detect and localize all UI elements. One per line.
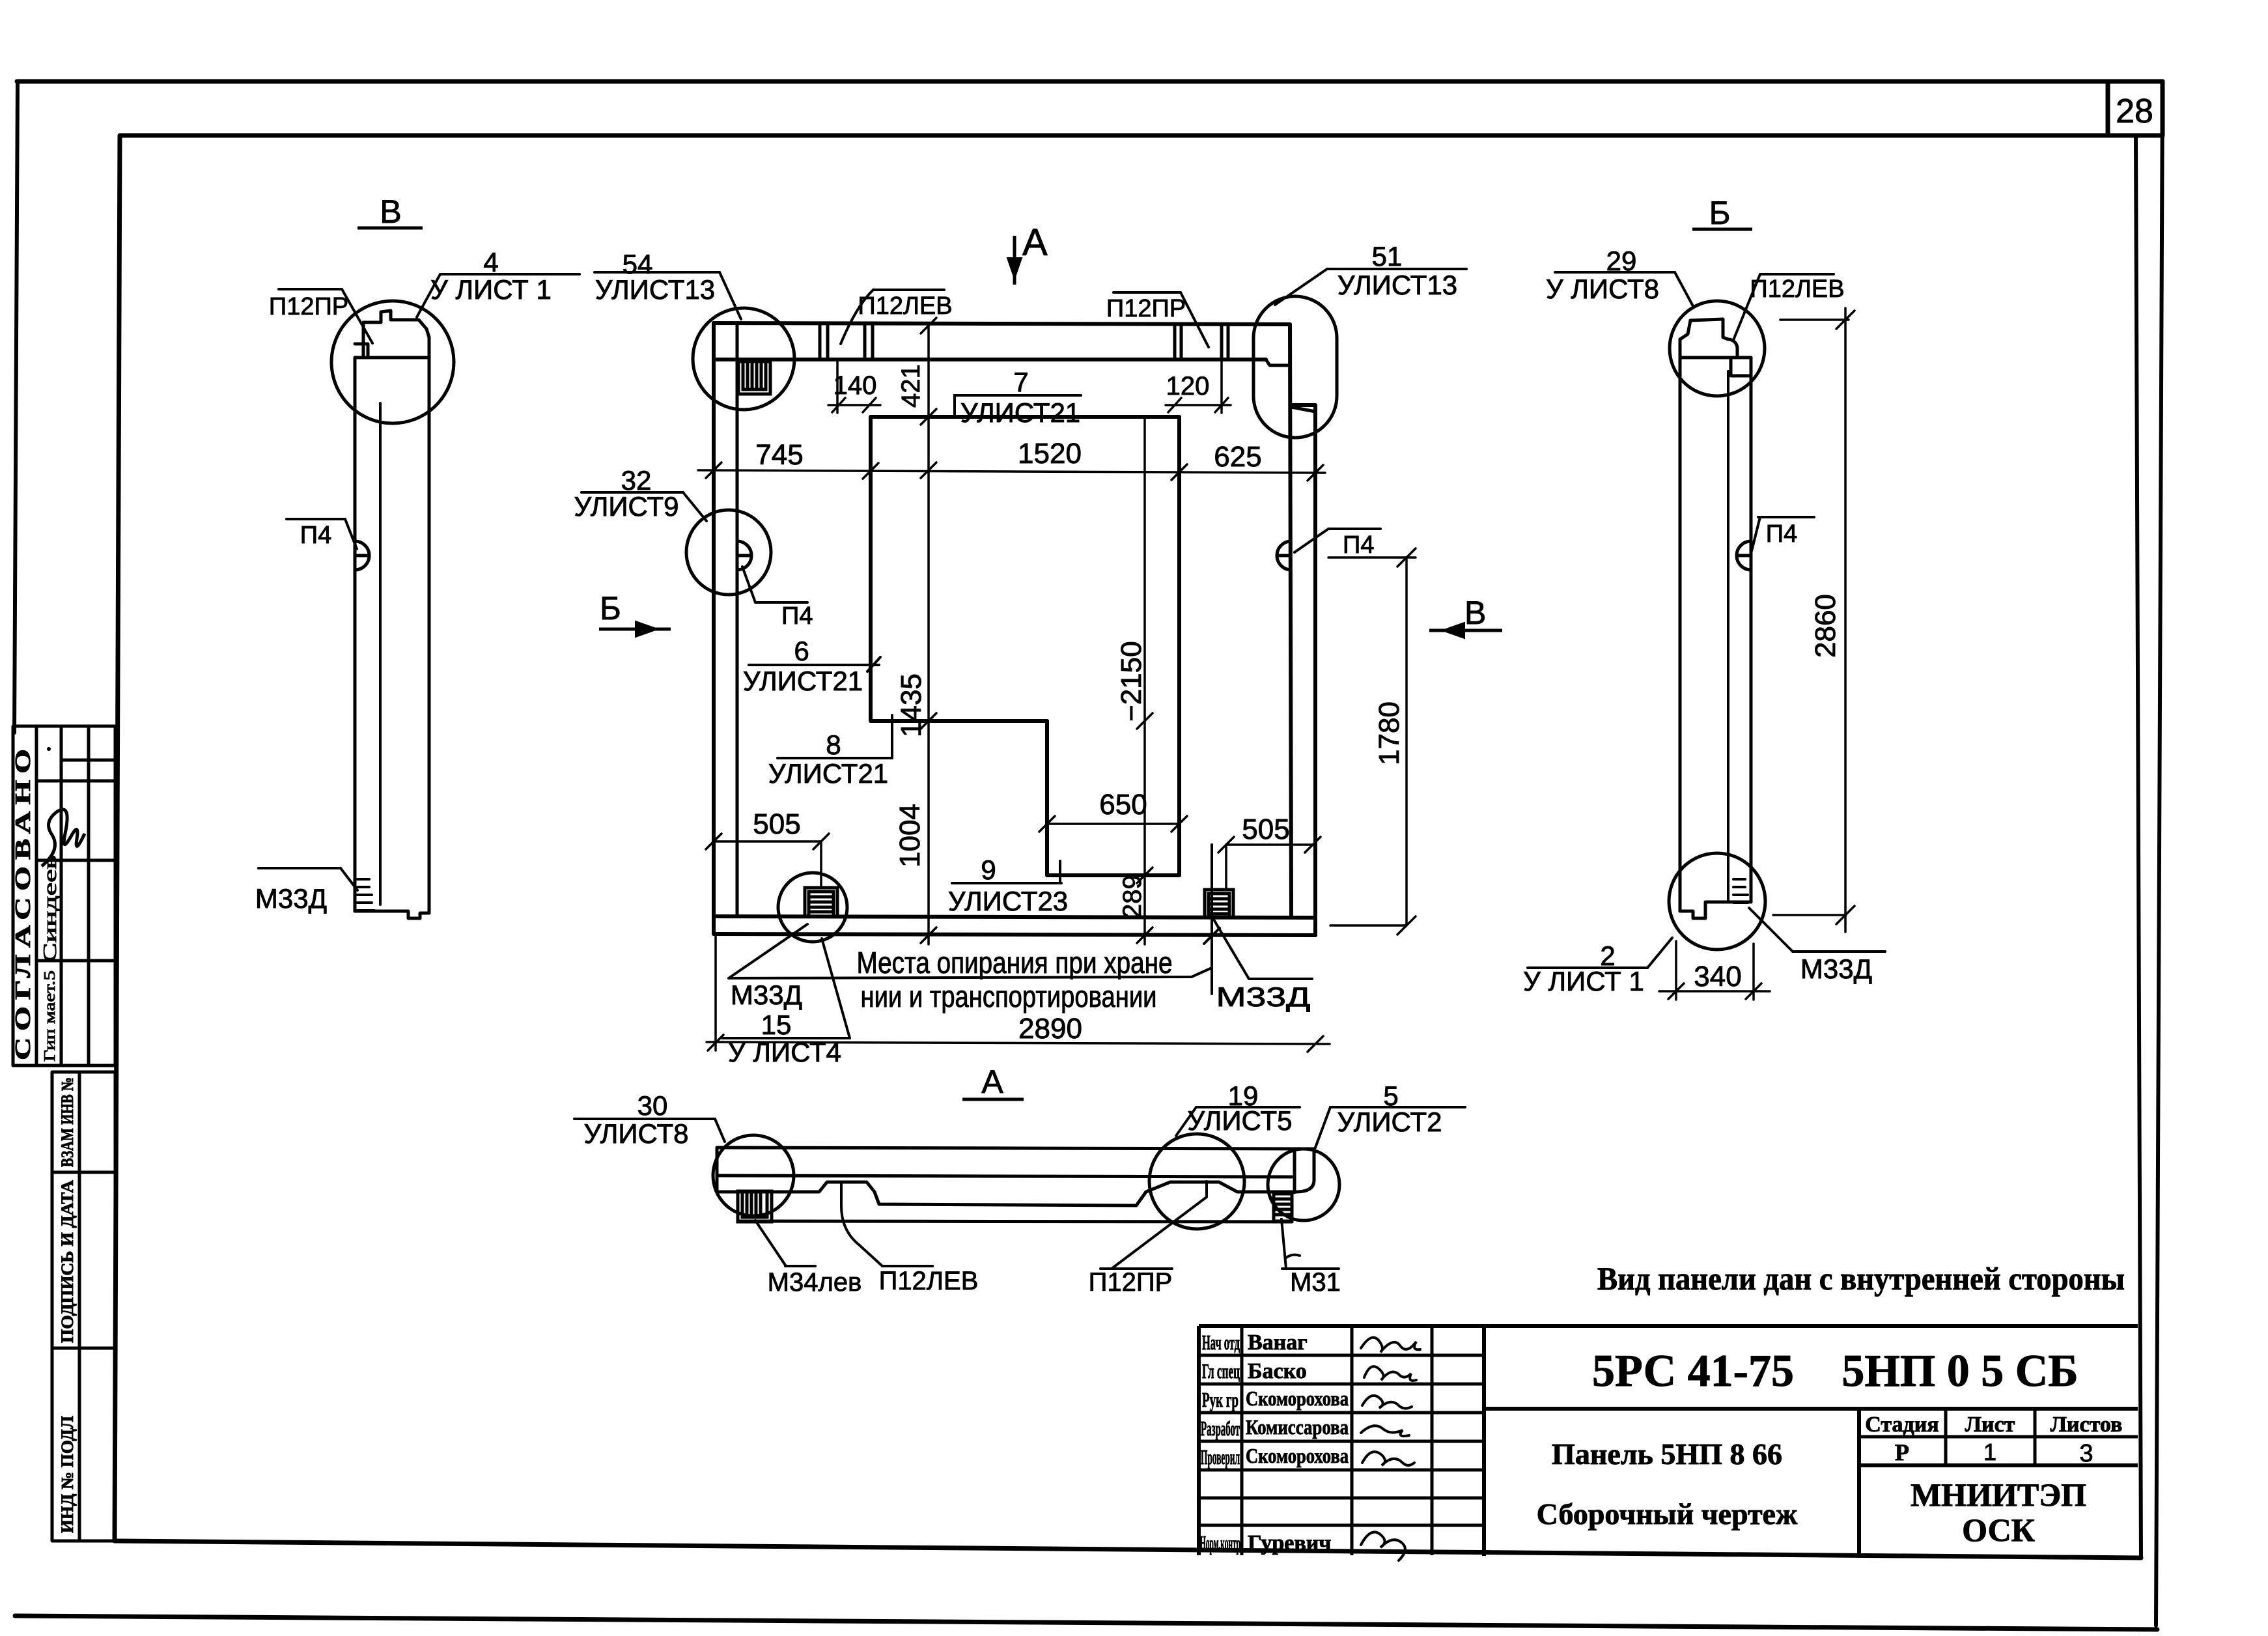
panel bottom band lower line (714, 934, 1315, 935)
svg-text:П12ЛЕВ: П12ЛЕВ (879, 1267, 979, 1295)
mini table lines (1859, 1435, 2138, 1439)
svg-text:М31: М31 (1290, 1268, 1341, 1297)
dim 2860 (1844, 308, 1847, 932)
П12ПР marks on top band (1173, 324, 1177, 360)
А view top line (717, 1148, 1314, 1149)
label 54 УЛИСТ13 leader (595, 271, 720, 274)
label П12ПР (В) leader (279, 288, 342, 290)
А view bottom line (738, 1221, 1292, 1222)
inner frame right (2136, 135, 2141, 1558)
label П4 right leader (1328, 528, 1380, 530)
panel right edge (1290, 324, 1291, 916)
М33Д support square right (main view bottom) (1205, 890, 1233, 918)
svg-text:745: 745 (755, 439, 803, 471)
detail circle 30 (713, 1135, 794, 1216)
label П12ПР (А) leader (1100, 1267, 1172, 1270)
Б view П4 notch (1737, 541, 1751, 570)
vertical dim line 2150/289 (1143, 417, 1146, 944)
svg-text:М33Д: М33Д (1216, 981, 1311, 1012)
label 15 УЛИСТ4 leader (722, 1037, 850, 1039)
label М31 leader (1282, 1267, 1339, 1270)
outer frame left (partial) (14, 81, 18, 733)
detail circle 15 (778, 873, 847, 942)
svg-text:УЛИСТ13: УЛИСТ13 (595, 274, 715, 305)
signature table row labels (1200, 1331, 1240, 1555)
section mark A top (1007, 236, 1022, 285)
left stamp lower block divider vertical (78, 1072, 81, 1541)
А view right block (1293, 1149, 1296, 1192)
svg-text:Б: Б (1709, 195, 1731, 231)
detail circle 19 (1149, 1134, 1244, 1229)
svg-text:Ванаг: Ванаг (1248, 1331, 1308, 1355)
svg-text:140: 140 (833, 371, 877, 400)
П4 notch right (main view) (1277, 541, 1291, 570)
label М33Д (В) leader (259, 867, 341, 869)
section mark В right (1429, 623, 1502, 638)
svg-text:Синдеев: Синдеев (40, 855, 61, 963)
В view body (354, 358, 357, 911)
signature squiggles (1361, 1338, 1420, 1560)
svg-text:У ЛИСТ 1: У ЛИСТ 1 (430, 274, 552, 305)
svg-text:505: 505 (1242, 813, 1289, 845)
svg-text:М33Д: М33Д (255, 883, 327, 914)
svg-text:Комиссарова: Комиссарова (1246, 1415, 1349, 1439)
svg-text:Б: Б (600, 590, 621, 627)
svg-text:нии и транспортировании: нии и транспортировании (861, 980, 1157, 1013)
В view П4 notch (355, 541, 369, 570)
svg-text:Гип мает.5: Гип мает.5 (42, 970, 59, 1062)
svg-text:5НП 0 5 СБ: 5НП 0 5 СБ (1841, 1346, 2078, 1396)
label М33Д right leader (1249, 978, 1312, 980)
note extension vertical (1211, 845, 1213, 994)
svg-text:Стадия: Стадия (1865, 1413, 1939, 1437)
detail circle 54 (693, 308, 794, 410)
svg-text:Разработ: Разработ (1201, 1417, 1240, 1440)
Б view body (1679, 339, 1682, 911)
svg-text:8: 8 (826, 729, 841, 760)
svg-text:120: 120 (1166, 372, 1210, 401)
title area divider vertical (1857, 1409, 1861, 1557)
svg-text:3: 3 (2079, 1440, 2093, 1467)
svg-text:4: 4 (483, 247, 498, 277)
label 29 У ЛИСТ8 leader (1555, 271, 1675, 274)
panel bottom edge (714, 916, 1315, 918)
outer frame bottom (15, 1616, 2157, 1629)
svg-text:УЛИСТ2: УЛИСТ2 (1337, 1107, 1442, 1137)
label 8 УЛИСТ21 leader (777, 757, 892, 759)
label 19 УЛИСТ5 leader (1196, 1106, 1300, 1108)
svg-text:М33Д: М33Д (1800, 953, 1872, 984)
А view second line (717, 1176, 1292, 1177)
В view top cap profile (363, 311, 429, 358)
dim 1780 (1405, 557, 1408, 925)
svg-text:УЛИСТ8: УЛИСТ8 (584, 1118, 689, 1149)
label 7 УЛИСТ21 bracket (955, 395, 1081, 417)
label М33Д left leader (729, 924, 807, 978)
label 6 УЛИСТ21 leader (749, 664, 879, 666)
svg-text:15: 15 (761, 1009, 792, 1040)
svg-text:П4: П4 (1766, 520, 1797, 548)
svg-text:П4: П4 (1343, 531, 1374, 559)
left stamp upper block border (13, 726, 115, 1065)
svg-text:УЛИСТ21: УЛИСТ21 (768, 758, 888, 789)
svg-text:Лист: Лист (1965, 1413, 2015, 1437)
dim 505 right (1226, 843, 1314, 846)
В view bottom foot (355, 911, 429, 918)
signature table rows (1199, 1354, 1484, 1357)
label 9 УЛИСТ23 leader (952, 882, 1061, 884)
svg-text:Гуревич: Гуревич (1248, 1531, 1331, 1555)
label 2 У ЛИСТ 1 leader (1528, 966, 1647, 969)
Б view М33Д mark (1733, 879, 1748, 903)
inner frame top (121, 134, 2138, 138)
svg-text:Вид панели дан с внутренней ст: Вид панели дан с внутренней стороны (1597, 1260, 2125, 1297)
А view stepped near contour (717, 1182, 1295, 1206)
М33Д support square left (main view bottom) (805, 888, 837, 916)
svg-text:П12ПР: П12ПР (269, 293, 348, 320)
svg-text:УЛИСТ13: УЛИСТ13 (1337, 270, 1457, 300)
svg-text:650: 650 (1099, 789, 1147, 821)
svg-text:−2150: −2150 (1115, 641, 1147, 722)
svg-text:1004: 1004 (894, 804, 926, 867)
detail circle 5 (1268, 1149, 1339, 1220)
dim 2890 (707, 1042, 1330, 1044)
svg-text:П4: П4 (300, 522, 331, 549)
detail stadium 51 (top-right corner) (1253, 296, 1337, 438)
panel outline top band (714, 323, 1290, 324)
small tilde above М31 (1285, 1255, 1300, 1258)
svg-text:Скоморохова: Скоморохова (1246, 1387, 1349, 1410)
title area divider horizontal (1484, 1407, 2138, 1411)
detail circle 32 (686, 510, 771, 595)
svg-text:Норм.контр: Норм.контр (1200, 1531, 1240, 1555)
label 51 УЛИСТ13 leader (1327, 268, 1466, 270)
detail circle Б top (1670, 301, 1765, 396)
svg-text:51: 51 (1372, 241, 1403, 272)
svg-text:289: 289 (1118, 875, 1147, 918)
svg-text:В: В (1464, 595, 1486, 631)
svg-text:ОСК: ОСК (1962, 1512, 2035, 1548)
П12ЛЕВ marks on top band (819, 324, 822, 360)
М34ЛЕВ support square (main view top-left) (738, 361, 770, 394)
svg-text:625: 625 (1214, 441, 1261, 473)
ticks (706, 462, 721, 478)
label 4 УЛИСТ1 leader (440, 273, 580, 275)
svg-text:У ЛИСТ 1: У ЛИСТ 1 (1523, 966, 1644, 996)
svg-text:Гл спец: Гл спец (1202, 1359, 1240, 1383)
dim 505 left (714, 840, 821, 843)
svg-text:1520: 1520 (1018, 438, 1082, 470)
section mark Б left (599, 621, 671, 637)
Б view bottom foot (1680, 902, 1751, 918)
label П4 (В) leader (287, 518, 345, 520)
А view М31 square (1274, 1194, 1292, 1221)
left stamp upper block rows (61, 759, 115, 762)
svg-text:2860: 2860 (1810, 594, 1841, 658)
А view М34ЛЕВ square (738, 1191, 772, 1222)
signature table columns (1240, 1326, 1244, 1555)
label П4 (Б) leader (1758, 516, 1814, 518)
svg-text:29: 29 (1606, 246, 1637, 276)
svg-text:СОГЛАСОВАНО: СОГЛАСОВАНО (11, 742, 35, 1060)
svg-text:У ЛИСТ8: У ЛИСТ8 (1546, 274, 1659, 304)
label 32 УЛИСТ9 leader (581, 491, 683, 494)
svg-text:УЛИСТ21: УЛИСТ21 (960, 397, 1080, 428)
svg-text:1435: 1435 (895, 673, 927, 737)
svg-text:П12ЛЕВ: П12ЛЕВ (1750, 275, 1844, 303)
Б view П12ЛЕВ quarter-round (1728, 339, 1737, 358)
corner step inside stadium (1291, 407, 1315, 412)
svg-text:УЛИСТ21: УЛИСТ21 (743, 666, 863, 696)
svg-text:Р: Р (1895, 1439, 1909, 1465)
svg-text:1780: 1780 (1373, 701, 1405, 765)
stamp dot (47, 747, 51, 751)
svg-text:П12ЛЕВ: П12ЛЕВ (858, 292, 952, 320)
dim 140 (836, 360, 839, 413)
left stamp upper block verticals (35, 726, 38, 1065)
Б view notch (1731, 358, 1751, 376)
svg-text:Скоморохова: Скоморохова (1246, 1444, 1349, 1467)
П4 notch left (main view) (737, 541, 751, 570)
dim 650 (1047, 823, 1179, 825)
svg-text:Листов: Листов (2051, 1413, 2123, 1437)
label 5 УЛИСТ2 leader (1330, 1106, 1465, 1108)
inner frame left (115, 135, 120, 1541)
svg-text:Проверил: Проверил (1201, 1445, 1240, 1469)
svg-text:УЛИСТ9: УЛИСТ9 (574, 491, 679, 522)
svg-text:5РС 41-75: 5РС 41-75 (1592, 1346, 1794, 1396)
А view left edge (716, 1148, 719, 1192)
Б view top cap profile (1680, 319, 1728, 358)
svg-text:М33Д: М33Д (731, 980, 802, 1010)
svg-text:В: В (380, 193, 401, 230)
svg-text:А: А (981, 1064, 1003, 1100)
left stamp lower block border (52, 1072, 115, 1541)
dim 120 (1220, 360, 1223, 413)
svg-text:1: 1 (1983, 1439, 1996, 1465)
note bracket line (729, 968, 1212, 978)
svg-text:Рук гр: Рук гр (1202, 1388, 1239, 1411)
svg-text:9: 9 (981, 854, 996, 885)
label П12ПР leader (1113, 291, 1181, 294)
svg-text:ВЗАМ ИНВ №: ВЗАМ ИНВ № (58, 1077, 77, 1167)
svg-text:Баско: Баско (1248, 1359, 1307, 1383)
label М33Д (Б) leader (1793, 950, 1885, 953)
svg-text:П12ПР: П12ПР (1106, 295, 1186, 322)
svg-text:Панель 5НП 8 66: Панель 5НП 8 66 (1552, 1437, 1782, 1471)
svg-text:П4: П4 (781, 602, 813, 630)
svg-text:6: 6 (794, 636, 809, 666)
sheet number box 28 (2108, 81, 2163, 135)
svg-text:УЛИСТ23: УЛИСТ23 (948, 886, 1068, 916)
stamp signature (upper) (42, 810, 85, 866)
dim 340 (1675, 941, 1677, 1000)
svg-text:Нач отд: Нач отд (1202, 1331, 1240, 1354)
svg-text:421: 421 (897, 364, 925, 408)
svg-text:У ЛИСТ4: У ЛИСТ4 (728, 1037, 841, 1067)
label П4 left leader (755, 601, 807, 604)
svg-text:505: 505 (753, 808, 800, 840)
left stamp lower block rows (52, 1171, 115, 1174)
svg-text:2890: 2890 (1018, 1013, 1082, 1045)
svg-text:Сборочный чертеж: Сборочный чертеж (1537, 1497, 1798, 1530)
panel right flange step (1291, 405, 1315, 935)
В view П12ПР notch (355, 344, 368, 358)
label 30 УЛИСТ8 leader (574, 1118, 715, 1120)
svg-text:А: А (1022, 221, 1048, 264)
panel left edge (712, 323, 716, 934)
label П12ЛЕВ (Б) leader (1760, 273, 1834, 275)
signature table names (1246, 1331, 1349, 1555)
vertical dim line 421/1435/1004 (927, 324, 930, 944)
svg-text:Места опирания при хране: Места опирания при хране (857, 946, 1173, 980)
svg-text:340: 340 (1694, 961, 1741, 993)
svg-text:П12ПР: П12ПР (1089, 1268, 1173, 1297)
detail circle Б bottom (1669, 853, 1765, 950)
inner frame bottom (115, 1541, 2141, 1558)
dim chain 745/1520/625 line (698, 470, 1325, 473)
title block outer border (1199, 1324, 2138, 1328)
svg-text:ПОДПИСЬ И ДАТА: ПОДПИСЬ И ДАТА (58, 1180, 77, 1343)
svg-text:30: 30 (637, 1090, 668, 1121)
detail circle В top (331, 301, 454, 423)
label М34ЛЕВ leader (785, 1265, 815, 1267)
svg-text:МНИИТЭП: МНИИТЭП (1911, 1476, 2086, 1513)
label П12ЛЕВ (А) leader (882, 1265, 932, 1267)
svg-text:УЛИСТ5: УЛИСТ5 (1188, 1105, 1293, 1136)
label П12ЛЕВ leader (873, 289, 944, 291)
svg-text:М34лев: М34лев (768, 1268, 862, 1297)
В view М33Д mark (357, 879, 374, 910)
svg-text:ИНД № ПОДЛ: ИНД № ПОДЛ (58, 1416, 77, 1533)
svg-text:28: 28 (2116, 92, 2153, 130)
outer frame right (2156, 81, 2163, 1626)
outer frame top (17, 79, 2163, 84)
opening contour (871, 417, 1179, 875)
svg-text:7: 7 (1013, 367, 1028, 397)
